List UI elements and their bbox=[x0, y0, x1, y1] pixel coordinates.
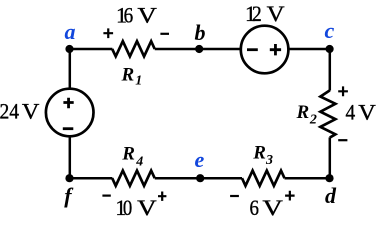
node b bbox=[195, 45, 203, 53]
svg-text:2: 2 bbox=[309, 113, 317, 128]
svg-text:e: e bbox=[195, 147, 205, 172]
svg-text:3: 3 bbox=[265, 153, 273, 168]
svg-text:b: b bbox=[195, 20, 206, 45]
wire f up to source V24 bbox=[69, 136, 72, 178]
svg-text:R: R bbox=[252, 142, 266, 163]
minus sign R1 bbox=[160, 33, 169, 35]
plus sign R3 bbox=[285, 191, 295, 201]
svg-text:V: V bbox=[262, 195, 283, 220]
wire a to R1 bbox=[70, 48, 113, 51]
svg-text:c: c bbox=[325, 18, 335, 43]
node c bbox=[326, 45, 334, 53]
node a bbox=[65, 45, 73, 53]
wire R4 to f bbox=[70, 177, 113, 180]
resistor R1 bbox=[112, 41, 155, 56]
plus sign V24 bbox=[63, 98, 73, 109]
svg-text:R: R bbox=[296, 102, 310, 123]
minus sign R4 bbox=[102, 195, 110, 197]
svg-text:f: f bbox=[64, 183, 74, 208]
wire d to R3 bbox=[285, 177, 330, 180]
svg-text:24: 24 bbox=[0, 98, 19, 123]
node e bbox=[196, 174, 204, 182]
svg-text:V: V bbox=[22, 98, 40, 123]
wire R1 to b to source V12 bbox=[155, 48, 241, 51]
plus sign R1 bbox=[103, 28, 113, 38]
node f bbox=[65, 174, 73, 182]
minus sign R3 bbox=[230, 195, 239, 197]
plus sign R2 bbox=[338, 86, 348, 96]
svg-text:V: V bbox=[358, 100, 376, 125]
svg-text:R: R bbox=[121, 65, 135, 86]
svg-text:4: 4 bbox=[135, 155, 143, 170]
svg-text:6: 6 bbox=[250, 195, 259, 220]
resistor R3 bbox=[242, 171, 285, 186]
wire c down to R2 bbox=[329, 49, 332, 91]
svg-text:d: d bbox=[325, 183, 337, 208]
voltage source V24 bbox=[46, 89, 94, 137]
plus sign V12 bbox=[270, 44, 281, 55]
svg-text:6: 6 bbox=[124, 3, 134, 28]
svg-text:0: 0 bbox=[123, 195, 132, 220]
resistor R2 bbox=[320, 90, 335, 137]
minus sign V12 bbox=[247, 48, 258, 51]
voltage source V12 bbox=[241, 26, 289, 74]
wire V12 to c bbox=[288, 48, 329, 51]
svg-text:a: a bbox=[65, 19, 76, 44]
minus sign V24 bbox=[63, 127, 74, 130]
minus sign R2 bbox=[338, 139, 347, 141]
svg-text:1: 1 bbox=[135, 74, 142, 89]
wire R3 to e to R4 bbox=[155, 177, 242, 180]
node d bbox=[325, 174, 333, 182]
svg-text:2: 2 bbox=[252, 1, 262, 26]
resistor R4 bbox=[112, 171, 155, 186]
wire R2 to d bbox=[329, 137, 332, 178]
svg-text:V: V bbox=[137, 3, 157, 28]
svg-text:4: 4 bbox=[346, 100, 356, 125]
svg-text:V: V bbox=[267, 1, 285, 26]
plus sign R4 bbox=[158, 192, 166, 201]
wire a down to source V24 bbox=[69, 49, 72, 89]
svg-text:R: R bbox=[121, 143, 135, 164]
svg-text:V: V bbox=[137, 195, 157, 220]
